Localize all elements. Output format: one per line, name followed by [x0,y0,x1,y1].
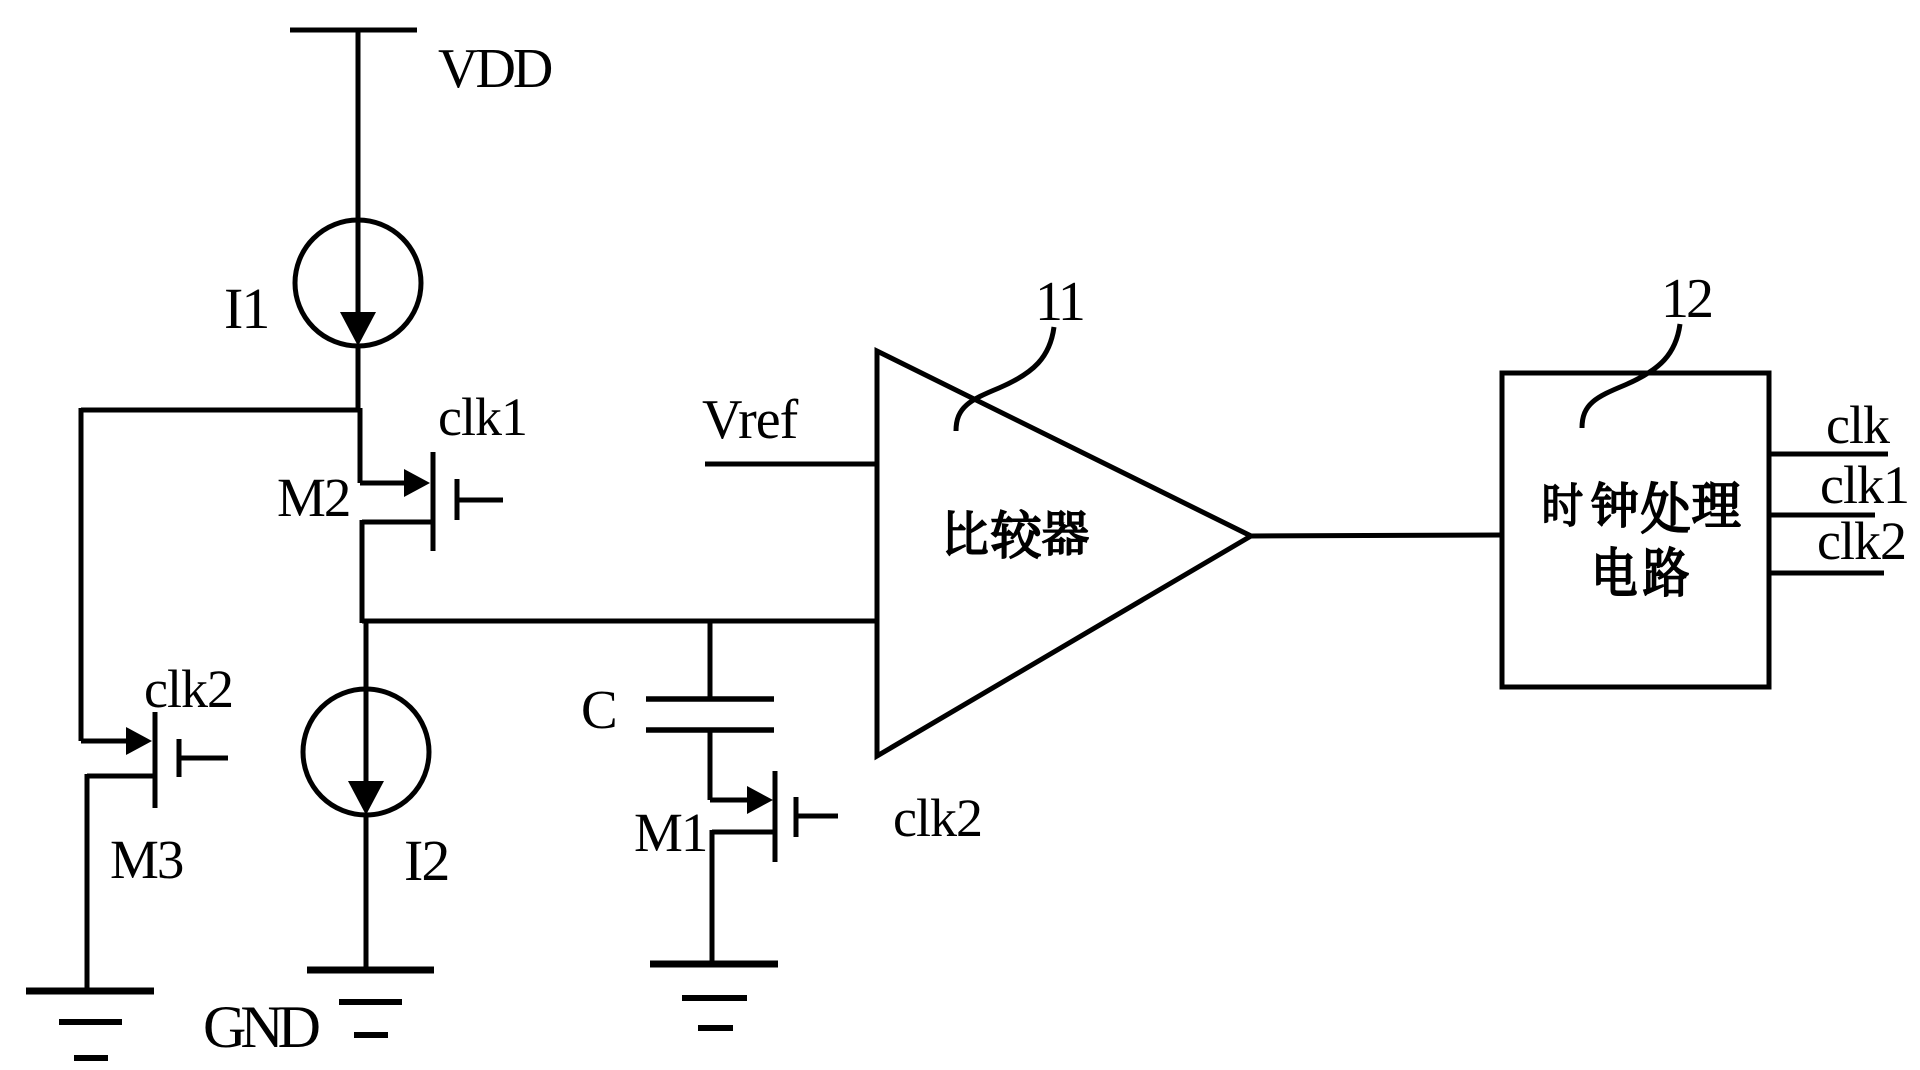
svg-text:clk: clk [1826,395,1890,455]
text 比 (comparator label) [947,511,987,555]
VDD power rail [290,28,417,33]
svg-text:VDD: VDD [438,38,552,100]
current source I1 circle [295,220,421,346]
text 电 (block label) [1597,547,1636,595]
svg-text:M3: M3 [110,829,183,890]
current source I1 arrow [356,222,361,315]
op-amp U11 comparator triangle [877,351,1251,756]
transistor M2 gate wire clk1 [457,498,503,503]
wire left branch down to M3 [79,408,84,741]
ground under I2 [307,967,434,974]
leader curve 11 [956,327,1054,431]
svg-text:12: 12 [1661,268,1711,330]
wire node A down to M2 drain [358,408,363,483]
transistor M3 gate bar [177,739,182,777]
node A horizontal wire [81,408,360,413]
svg-text:I2: I2 [404,828,448,893]
transistor M2 gate bar [455,479,460,520]
wire I2 to ground [364,813,369,970]
output wire clk [1769,452,1888,457]
transistor M3 source wire [87,774,155,779]
output wire clk2 [1769,571,1884,576]
wire capacitor C to M1 [708,730,713,800]
text 较 (comparator label) [992,510,1040,558]
comparator output wire [1251,535,1504,536]
current source I2 arrow [364,691,369,784]
transistor M3 gate wire clk2 [179,756,228,761]
output wire clk1 [1769,513,1875,518]
block U12 rectangle [1502,373,1769,687]
text 路 (block label) [1644,547,1688,596]
ground under M1 [650,961,778,968]
Vref input wire [705,462,877,467]
transistor M1 gate wire clk2 [796,814,838,819]
wire VDD to I1 [356,28,361,222]
svg-text:clk2: clk2 [144,659,233,719]
transistor M1 gate bar [794,797,799,837]
capacitor C top plate [646,696,774,702]
svg-text:11: 11 [1035,271,1083,333]
transistor M3 channel bar [153,712,158,808]
wire node B to I2 [364,621,369,691]
svg-text:clk2: clk2 [1817,511,1906,571]
ground under M3 [26,988,154,995]
wire node B to capacitor C [708,621,713,699]
transistor M1 drain arrow [710,798,751,803]
current source I2 circle [303,689,429,815]
svg-text:M1: M1 [634,802,706,863]
transistor M1 channel bar [773,771,778,862]
node B horizontal wire to comparator [362,619,877,624]
transistor M2 source wire [362,520,433,525]
text 处 (block label) [1642,482,1689,533]
svg-text:I1: I1 [224,276,268,341]
svg-text:C: C [581,679,618,740]
leader curve 12 [1582,324,1680,428]
svg-text:M2: M2 [277,467,349,528]
svg-text:Vref: Vref [702,389,799,451]
wire I1 to node A [356,344,361,412]
transistor M1 source wire [712,830,775,835]
svg-text:clk1: clk1 [438,387,527,447]
transistor M2 drain arrow [360,481,408,486]
transistor M2 channel bar [431,452,436,551]
svg-text:clk1: clk1 [1820,455,1909,515]
text 时 (block label) [1545,483,1582,526]
transistor M3 drain arrow [81,739,130,744]
svg-text:clk2: clk2 [893,788,982,848]
capacitor C bottom plate [646,727,774,733]
text 钟 (block label) [1592,482,1637,527]
text 器 (comparator label) [1043,511,1088,555]
svg-text:GND: GND [203,994,319,1060]
text 理 (block label) [1693,482,1740,526]
